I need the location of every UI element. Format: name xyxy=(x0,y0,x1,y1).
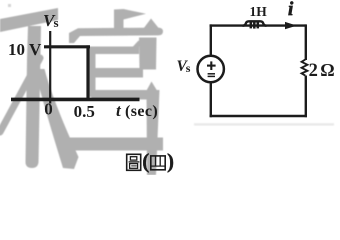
svg-text:0.5: 0.5 xyxy=(74,102,95,121)
svg-text:(sec): (sec) xyxy=(125,103,158,120)
svg-text:0: 0 xyxy=(44,100,53,119)
svg-text:1H: 1H xyxy=(250,4,268,19)
svg-text:(: ( xyxy=(142,149,149,173)
svg-text:i: i xyxy=(288,0,294,20)
svg-text:): ) xyxy=(167,149,174,173)
svg-text:s: s xyxy=(186,61,191,75)
svg-text:s: s xyxy=(54,15,59,30)
svg-text:Ω: Ω xyxy=(320,60,334,80)
svg-text:t: t xyxy=(116,101,122,120)
svg-text:2: 2 xyxy=(309,61,318,81)
svg-text:10 V: 10 V xyxy=(8,40,42,59)
